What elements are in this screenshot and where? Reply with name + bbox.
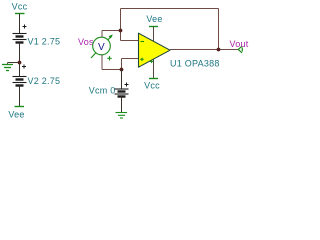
- wire op-amp output: [170, 49, 239, 51]
- Vee rail tap bar: [15, 106, 25, 108]
- voltage pin Vout (green arrow): [238, 46, 242, 53]
- wire to non-inverting input: [122, 58, 139, 60]
- wire battery V2 to Vee tap: [19, 86, 21, 107]
- ground (below Vcm): [116, 113, 128, 119]
- battery Vcm: [115, 83, 129, 97]
- wire battery Vcm to ground: [121, 97, 123, 113]
- wire voltmeter top to inverting node: [102, 30, 121, 32]
- voltmeter Vos: [91, 34, 113, 60]
- ground (left): [2, 63, 13, 71]
- junction dot (inverting node): [119, 29, 123, 33]
- junction dot (left branch): [18, 61, 22, 65]
- svg-text:Vos: Vos: [78, 37, 94, 47]
- svg-text:Vcc: Vcc: [12, 2, 28, 12]
- wire non-inverting input riser: [121, 59, 123, 70]
- svg-text:V1 2.75: V1 2.75: [28, 37, 61, 47]
- wire voltmeter bottom stub: [101, 55, 103, 70]
- svg-text:Vout: Vout: [230, 39, 249, 49]
- wire junction to ground (left): [8, 62, 20, 64]
- wire voltmeter top stub: [101, 31, 103, 38]
- svg-text:V: V: [98, 42, 105, 53]
- wire feedback vertical (right): [218, 9, 220, 50]
- battery V2: [13, 65, 27, 86]
- svg-text:Vee: Vee: [8, 110, 24, 120]
- wire feedback top: [121, 8, 219, 10]
- wire battery V1 to battery V2: [19, 43, 21, 77]
- svg-text:Vcc: Vcc: [144, 81, 160, 91]
- wire voltmeter bottom to non-inverting node: [102, 69, 122, 71]
- Vee rail tap bar (op-amp top): [149, 26, 158, 28]
- Vcc rail tap bar (op-amp bottom): [149, 78, 158, 80]
- svg-text:U1 OPA388: U1 OPA388: [170, 59, 220, 69]
- junction dot (output node): [217, 48, 221, 52]
- svg-text:Vee: Vee: [146, 14, 162, 24]
- op-amp U1 OPA388: [139, 33, 171, 67]
- svg-text:V2 2.75: V2 2.75: [28, 76, 61, 86]
- wire to inverting input: [121, 40, 139, 42]
- wire feedback vertical (left): [120, 9, 122, 41]
- svg-text:Vcm 0: Vcm 0: [89, 86, 116, 96]
- Vcc rail tap bar: [15, 13, 25, 15]
- battery V1: [13, 25, 27, 43]
- wire op-amp top supply pin: [153, 27, 155, 42]
- wire op-amp bottom supply pin: [153, 59, 155, 79]
- wire non-inverting node to battery Vcm: [121, 70, 123, 90]
- junction dot (non-inverting node): [120, 68, 124, 72]
- wire Vcc tap to battery V1: [19, 14, 21, 34]
